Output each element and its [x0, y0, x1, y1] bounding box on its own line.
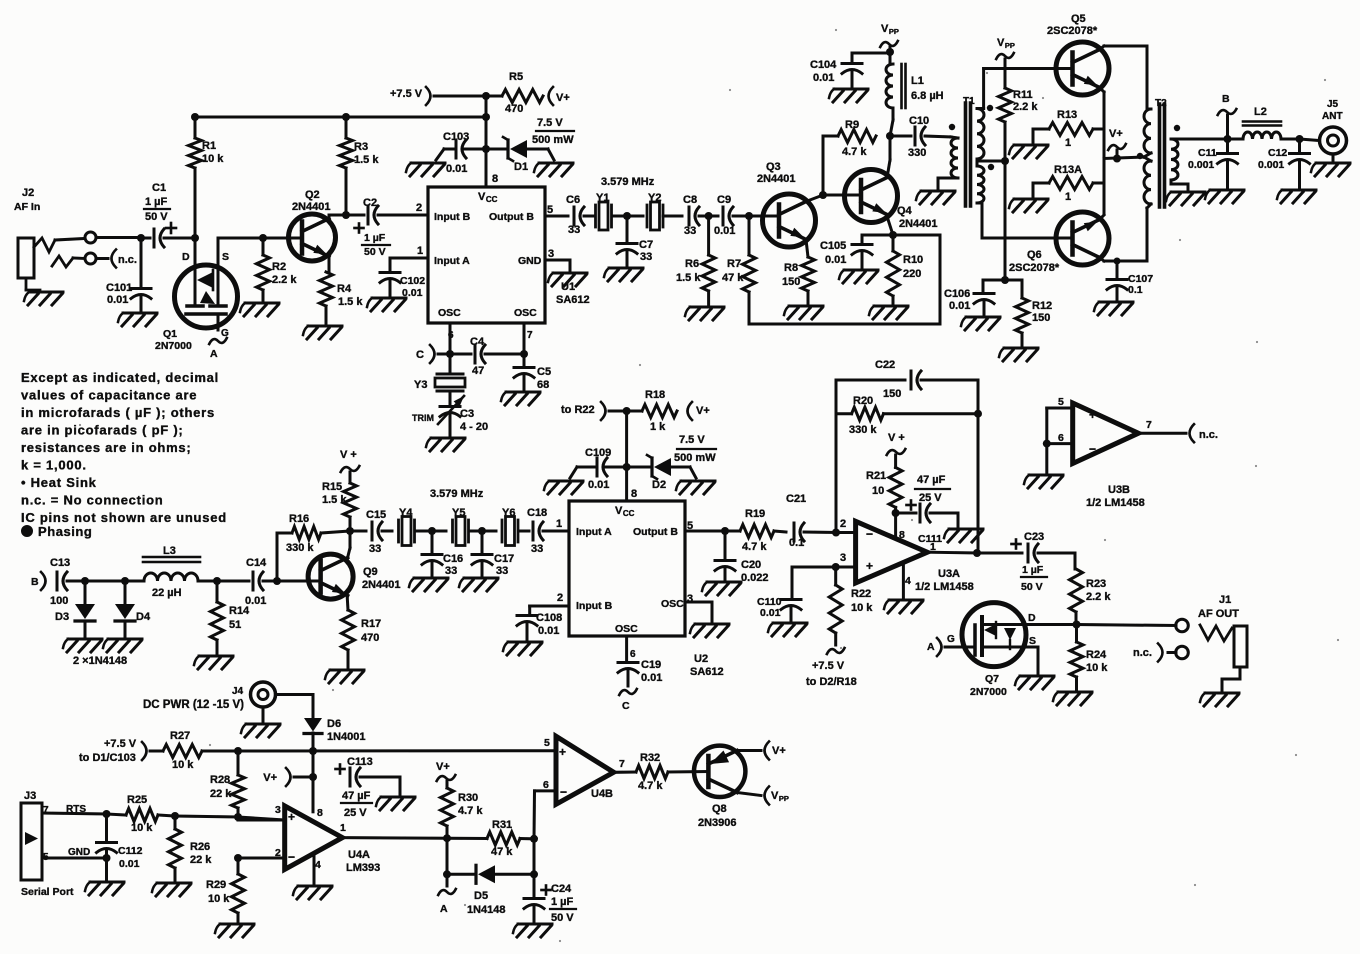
svg-text:4.7 k: 4.7 k — [742, 541, 767, 553]
svg-text:1N4148: 1N4148 — [467, 904, 506, 916]
svg-text:+: + — [1089, 408, 1096, 422]
svg-text:3: 3 — [275, 804, 281, 816]
svg-text:Output B: Output B — [633, 526, 678, 538]
svg-text:V: V — [478, 191, 486, 203]
svg-text:+: + — [866, 559, 873, 573]
svg-text:C11: C11 — [1198, 147, 1217, 159]
svg-text:22 µH: 22 µH — [152, 587, 182, 599]
svg-text:PP: PP — [889, 27, 899, 36]
svg-text:C104: C104 — [810, 59, 837, 71]
svg-text:2: 2 — [275, 847, 281, 859]
svg-text:Y3: Y3 — [414, 379, 427, 391]
svg-text:C109: C109 — [585, 447, 611, 459]
svg-text:resistances are in ohms;: resistances are in ohms; — [21, 440, 191, 455]
svg-text:Except as indicated, decimal: Except as indicated, decimal — [21, 370, 219, 385]
svg-text:C23: C23 — [1024, 531, 1044, 543]
svg-text:R8: R8 — [784, 262, 798, 274]
svg-text:0.01: 0.01 — [245, 595, 266, 607]
svg-text:+7.5 V: +7.5 V — [390, 88, 423, 100]
svg-text:to D1/C103: to D1/C103 — [79, 752, 136, 764]
svg-text:R1: R1 — [202, 140, 216, 152]
svg-text:D6: D6 — [327, 718, 341, 730]
svg-text:L2: L2 — [1254, 106, 1267, 118]
svg-text:0.1: 0.1 — [1128, 284, 1143, 296]
svg-text:6: 6 — [630, 649, 636, 660]
svg-text:0.001: 0.001 — [1258, 159, 1284, 171]
svg-text:V: V — [771, 790, 779, 802]
svg-text:2N3906: 2N3906 — [698, 817, 737, 829]
svg-text:2.2 k: 2.2 k — [272, 274, 297, 286]
svg-text:100: 100 — [50, 595, 68, 607]
svg-text:Input A: Input A — [576, 526, 612, 538]
svg-text:1 k: 1 k — [650, 421, 666, 433]
svg-text:C: C — [416, 349, 424, 361]
svg-text:J3: J3 — [24, 790, 36, 802]
svg-text:2N7000: 2N7000 — [155, 340, 192, 352]
svg-text:D5: D5 — [474, 890, 488, 902]
svg-text:2SC2078*: 2SC2078* — [1009, 262, 1060, 274]
svg-text:10 k: 10 k — [851, 602, 873, 614]
svg-text:2: 2 — [840, 518, 846, 530]
svg-text:Q7: Q7 — [985, 673, 999, 685]
svg-text:C106: C106 — [944, 288, 970, 300]
svg-text:8: 8 — [899, 529, 905, 541]
svg-text:1: 1 — [1065, 137, 1071, 149]
svg-text:C111: C111 — [918, 533, 942, 545]
svg-text:IC pins not shown are unused: IC pins not shown are unused — [21, 510, 227, 525]
svg-text:470: 470 — [361, 632, 379, 644]
svg-text:k = 1,000.: k = 1,000. — [21, 458, 87, 473]
svg-text:2SC2078*: 2SC2078* — [1047, 25, 1098, 37]
svg-text:−: − — [1089, 442, 1096, 456]
svg-text:470: 470 — [505, 103, 523, 115]
svg-text:10: 10 — [872, 485, 884, 497]
svg-text:C15: C15 — [366, 509, 386, 521]
svg-text:R15: R15 — [322, 481, 342, 493]
svg-text:C19: C19 — [641, 659, 661, 671]
svg-text:L1: L1 — [911, 75, 924, 87]
svg-text:OSC: OSC — [438, 307, 461, 319]
svg-text:1.5 k: 1.5 k — [354, 154, 379, 166]
svg-text:1: 1 — [556, 518, 562, 530]
svg-text:Q3: Q3 — [766, 161, 781, 173]
svg-text:Phasing: Phasing — [38, 524, 92, 539]
svg-text:n.c.: n.c. — [1133, 647, 1152, 659]
svg-text:1.5 k: 1.5 k — [338, 296, 363, 308]
svg-text:25 V: 25 V — [919, 492, 942, 504]
svg-text:S: S — [222, 251, 229, 263]
svg-text:ANT: ANT — [1322, 111, 1343, 122]
svg-text:10 k: 10 k — [202, 153, 224, 165]
svg-text:330 k: 330 k — [849, 424, 877, 436]
svg-text:J4: J4 — [232, 686, 244, 697]
svg-text:R18: R18 — [645, 389, 665, 401]
svg-text:0.01: 0.01 — [714, 225, 735, 237]
svg-text:Q6: Q6 — [1027, 249, 1042, 261]
svg-text:J2: J2 — [22, 187, 34, 199]
svg-text:D2: D2 — [652, 479, 666, 491]
svg-text:0.01: 0.01 — [949, 300, 970, 312]
svg-text:R13: R13 — [1057, 109, 1077, 121]
svg-text:AF OUT: AF OUT — [1198, 608, 1239, 620]
svg-text:150: 150 — [782, 276, 800, 288]
svg-text:R27: R27 — [170, 730, 190, 742]
svg-text:10 k: 10 k — [1086, 662, 1108, 674]
svg-text:GND: GND — [518, 255, 542, 267]
svg-text:0.01: 0.01 — [825, 254, 846, 266]
svg-text:7.5 V: 7.5 V — [537, 117, 563, 129]
svg-text:OSC: OSC — [514, 307, 537, 319]
svg-text:U2: U2 — [694, 653, 708, 665]
svg-text:n.c. = No connection: n.c. = No connection — [21, 493, 164, 508]
svg-text:Y6: Y6 — [502, 507, 515, 519]
svg-text:n.c.: n.c. — [118, 254, 137, 266]
svg-text:SA612: SA612 — [556, 294, 590, 306]
svg-text:47 µF: 47 µF — [917, 474, 946, 486]
svg-text:C24: C24 — [551, 883, 572, 895]
svg-text:47 µF: 47 µF — [342, 790, 371, 802]
svg-text:R30: R30 — [458, 792, 478, 804]
svg-text:V+: V+ — [772, 745, 786, 757]
svg-text:Input A: Input A — [434, 255, 470, 267]
svg-text:C108: C108 — [536, 612, 562, 624]
svg-text:D: D — [1028, 612, 1036, 624]
svg-text:V +: V + — [340, 449, 357, 461]
svg-text:C12: C12 — [1268, 147, 1287, 159]
svg-text:C18: C18 — [527, 507, 547, 519]
svg-text:Q9: Q9 — [363, 566, 378, 578]
svg-text:2N4401: 2N4401 — [292, 201, 331, 213]
svg-text:1/2 LM1458: 1/2 LM1458 — [915, 581, 974, 593]
svg-text:R3: R3 — [354, 141, 368, 153]
svg-text:0.1: 0.1 — [789, 537, 804, 549]
svg-text:+: + — [288, 810, 295, 824]
svg-text:330 k: 330 k — [286, 542, 314, 554]
svg-text:33: 33 — [568, 224, 580, 236]
svg-text:2N4401: 2N4401 — [362, 579, 401, 591]
svg-text:0.01: 0.01 — [760, 607, 781, 619]
svg-text:1N4001: 1N4001 — [327, 731, 366, 743]
svg-text:+7.5 V: +7.5 V — [812, 660, 845, 672]
svg-text:R26: R26 — [190, 841, 210, 853]
svg-text:C2: C2 — [363, 197, 377, 209]
svg-text:33: 33 — [684, 225, 696, 237]
svg-text:33: 33 — [640, 251, 652, 263]
svg-text:47: 47 — [472, 365, 484, 377]
svg-text:R32: R32 — [640, 752, 660, 764]
svg-text:• Heat Sink: • Heat Sink — [21, 475, 97, 490]
svg-text:0.01: 0.01 — [119, 858, 140, 870]
svg-text:6.8 µH: 6.8 µH — [911, 90, 944, 102]
svg-text:V +: V + — [888, 432, 905, 444]
svg-text:33: 33 — [496, 565, 508, 577]
svg-text:R5: R5 — [509, 71, 523, 83]
svg-text:3: 3 — [548, 248, 554, 260]
svg-text:R23: R23 — [1086, 578, 1106, 590]
svg-text:0.001: 0.001 — [1188, 159, 1214, 171]
svg-text:Y1: Y1 — [596, 192, 609, 204]
svg-text:2N4401: 2N4401 — [757, 173, 796, 185]
svg-text:33: 33 — [445, 565, 457, 577]
svg-text:R19: R19 — [745, 508, 765, 520]
svg-text:2N7000: 2N7000 — [970, 686, 1007, 698]
svg-text:R17: R17 — [361, 618, 381, 630]
svg-text:in microfarads ( µF ); others: in microfarads ( µF ); others — [21, 405, 215, 420]
svg-text:C103: C103 — [443, 131, 469, 143]
svg-text:C16: C16 — [443, 553, 463, 565]
svg-text:3: 3 — [840, 552, 846, 564]
svg-text:R29: R29 — [206, 879, 226, 891]
svg-text:2: 2 — [416, 202, 422, 214]
svg-text:V: V — [997, 37, 1005, 49]
svg-text:1.5 k: 1.5 k — [322, 494, 347, 506]
svg-text:50 V: 50 V — [145, 211, 168, 223]
svg-text:10 k: 10 k — [172, 759, 194, 771]
svg-text:DC PWR (12 -15 V): DC PWR (12 -15 V) — [143, 699, 244, 711]
svg-text:51: 51 — [229, 619, 241, 631]
svg-text:CC: CC — [486, 195, 498, 204]
svg-text:7: 7 — [527, 330, 533, 341]
svg-text:6: 6 — [543, 779, 549, 791]
svg-text:D1: D1 — [514, 161, 528, 173]
svg-text:R12: R12 — [1032, 300, 1052, 312]
svg-text:0.01: 0.01 — [641, 672, 662, 684]
svg-text:R20: R20 — [853, 395, 873, 407]
svg-text:OSC: OSC — [661, 598, 684, 610]
svg-text:R4: R4 — [337, 283, 352, 295]
svg-text:L3: L3 — [163, 545, 176, 557]
svg-text:J5: J5 — [1327, 99, 1339, 110]
svg-text:1: 1 — [340, 822, 346, 834]
svg-text:n.c.: n.c. — [1199, 429, 1218, 441]
svg-text:0.01: 0.01 — [107, 294, 128, 306]
svg-text:G: G — [947, 634, 955, 645]
svg-text:7: 7 — [619, 758, 625, 770]
svg-text:C4: C4 — [470, 336, 485, 348]
svg-text:C: C — [622, 700, 630, 712]
svg-text:R10: R10 — [903, 254, 923, 266]
svg-text:C1: C1 — [152, 182, 166, 194]
svg-text:C20: C20 — [741, 559, 761, 571]
svg-text:Y4: Y4 — [399, 507, 413, 519]
svg-text:C17: C17 — [494, 553, 514, 565]
svg-text:4.7 k: 4.7 k — [842, 146, 867, 158]
svg-text:0.01: 0.01 — [588, 479, 609, 491]
svg-text:150: 150 — [883, 388, 901, 400]
svg-text:R28: R28 — [210, 774, 230, 786]
svg-text:Input B: Input B — [576, 600, 613, 612]
svg-text:V+: V+ — [556, 92, 570, 104]
svg-text:A: A — [927, 641, 935, 653]
svg-text:D4: D4 — [136, 611, 151, 623]
svg-text:2N4401: 2N4401 — [899, 218, 938, 230]
svg-text:Serial Port: Serial Port — [21, 886, 74, 898]
svg-text:U4B: U4B — [591, 788, 613, 800]
svg-text:C6: C6 — [566, 194, 580, 206]
svg-text:2: 2 — [557, 592, 563, 604]
svg-text:50 V: 50 V — [1021, 581, 1043, 593]
svg-text:1 µF: 1 µF — [1022, 564, 1044, 576]
svg-text:220: 220 — [903, 268, 921, 280]
svg-text:V+: V+ — [1109, 128, 1123, 140]
svg-text:V: V — [615, 505, 623, 517]
svg-text:C7: C7 — [639, 239, 653, 251]
svg-text:330: 330 — [908, 147, 926, 159]
svg-text:Q2: Q2 — [305, 189, 320, 201]
svg-text:OSC: OSC — [615, 623, 638, 635]
svg-text:A: A — [210, 348, 218, 360]
svg-text:C8: C8 — [683, 194, 697, 206]
svg-text:PP: PP — [779, 794, 789, 803]
svg-text:1 µF: 1 µF — [145, 196, 168, 208]
svg-text:B: B — [1222, 93, 1230, 105]
svg-text:4 - 20: 4 - 20 — [460, 421, 488, 433]
svg-text:Output B: Output B — [489, 211, 534, 223]
svg-text:33: 33 — [531, 543, 543, 555]
svg-text:6: 6 — [448, 330, 454, 341]
svg-text:AF In: AF In — [14, 201, 40, 213]
svg-text:U3B: U3B — [1108, 484, 1130, 496]
svg-text:3.579 MHz: 3.579 MHz — [430, 488, 484, 500]
svg-text:D3: D3 — [55, 611, 69, 623]
svg-text:C102: C102 — [400, 275, 425, 287]
svg-text:10 k: 10 k — [131, 822, 153, 834]
svg-text:Q1: Q1 — [163, 328, 177, 340]
svg-text:0.022: 0.022 — [741, 572, 769, 584]
svg-text:C22: C22 — [875, 359, 895, 371]
svg-text:LM393: LM393 — [346, 862, 380, 874]
svg-text:R13A: R13A — [1054, 164, 1082, 176]
svg-text:R21: R21 — [866, 470, 886, 482]
svg-text:1: 1 — [1065, 191, 1071, 203]
svg-text:150: 150 — [1032, 312, 1050, 324]
svg-text:to R22: to R22 — [561, 404, 595, 416]
svg-text:5: 5 — [1058, 396, 1064, 408]
svg-text:V+: V+ — [696, 405, 710, 417]
svg-text:R24: R24 — [1086, 649, 1107, 661]
svg-text:0.01: 0.01 — [538, 625, 559, 637]
svg-text:are in picofarads ( pF );: are in picofarads ( pF ); — [21, 423, 184, 438]
svg-text:5: 5 — [547, 204, 553, 216]
svg-text:to D2/R18: to D2/R18 — [806, 676, 857, 688]
svg-text:47 k: 47 k — [491, 846, 513, 858]
svg-text:1/2 LM1458: 1/2 LM1458 — [1086, 497, 1145, 509]
svg-text:C5: C5 — [537, 366, 551, 378]
svg-text:8: 8 — [631, 488, 637, 500]
svg-text:4: 4 — [905, 575, 911, 587]
svg-text:68: 68 — [537, 379, 549, 391]
svg-text:4.7 k: 4.7 k — [458, 805, 483, 817]
svg-text:C101: C101 — [106, 282, 132, 294]
svg-text:−: − — [866, 527, 873, 541]
svg-text:SA612: SA612 — [690, 666, 724, 678]
svg-text:PP: PP — [1005, 41, 1015, 50]
svg-text:+: + — [559, 745, 566, 759]
svg-text:A: A — [440, 903, 448, 915]
svg-text:1 µF: 1 µF — [364, 232, 386, 244]
svg-text:2.2 k: 2.2 k — [1086, 591, 1111, 603]
svg-text:4.7 k: 4.7 k — [638, 780, 663, 792]
svg-text:S: S — [1029, 635, 1036, 647]
svg-text:2 ×1N4148: 2 ×1N4148 — [73, 655, 127, 667]
svg-text:1.5 k: 1.5 k — [676, 272, 701, 284]
svg-text:25 V: 25 V — [344, 807, 367, 819]
svg-text:B: B — [31, 576, 39, 588]
svg-text:500 mW: 500 mW — [674, 452, 716, 464]
svg-text:R7: R7 — [727, 258, 741, 270]
svg-text:Input B: Input B — [434, 211, 471, 223]
svg-text:R31: R31 — [492, 819, 512, 831]
svg-text:2.2 k: 2.2 k — [1013, 101, 1038, 113]
svg-text:4: 4 — [315, 859, 321, 871]
svg-text:C13: C13 — [50, 557, 70, 569]
svg-text:10 k: 10 k — [208, 893, 230, 905]
svg-text:R9: R9 — [845, 119, 859, 131]
svg-text:D: D — [182, 251, 190, 263]
svg-text:7: 7 — [1146, 419, 1152, 431]
svg-text:5: 5 — [544, 737, 550, 749]
svg-text:Q5: Q5 — [1071, 13, 1086, 25]
svg-text:0.01: 0.01 — [446, 163, 467, 175]
svg-text:0.01: 0.01 — [813, 72, 834, 84]
svg-text:−: − — [288, 850, 295, 864]
svg-text:TRIM: TRIM — [412, 413, 434, 423]
svg-text:Q4: Q4 — [897, 205, 913, 217]
svg-text:C112: C112 — [118, 845, 143, 857]
svg-text:3.579 MHz: 3.579 MHz — [601, 176, 655, 188]
svg-text:C10: C10 — [909, 115, 929, 127]
svg-text:0.01: 0.01 — [402, 287, 423, 299]
svg-text:8: 8 — [492, 173, 498, 185]
svg-text:V: V — [881, 23, 889, 35]
svg-text:C14: C14 — [246, 557, 267, 569]
svg-text:47 k: 47 k — [722, 272, 744, 284]
svg-text:22 k: 22 k — [190, 854, 212, 866]
svg-text:Y5: Y5 — [452, 507, 465, 519]
svg-text:C9: C9 — [717, 194, 731, 206]
svg-text:C105: C105 — [820, 240, 846, 252]
svg-text:R16: R16 — [289, 513, 309, 525]
svg-text:22 k: 22 k — [210, 788, 232, 800]
svg-text:R6: R6 — [685, 258, 699, 270]
svg-text:500 mW: 500 mW — [532, 134, 574, 146]
svg-text:V+: V+ — [436, 761, 450, 773]
svg-text:R11: R11 — [1013, 89, 1033, 101]
svg-text:50 V: 50 V — [364, 246, 386, 258]
svg-text:7.5 V: 7.5 V — [679, 434, 705, 446]
svg-text:C3: C3 — [460, 408, 474, 420]
svg-text:U3A: U3A — [938, 568, 960, 580]
svg-text:+7.5 V: +7.5 V — [104, 738, 137, 750]
svg-text:8: 8 — [317, 807, 323, 819]
svg-text:R2: R2 — [272, 261, 286, 273]
svg-text:33: 33 — [369, 543, 381, 555]
svg-text:CC: CC — [623, 509, 635, 518]
svg-text:1: 1 — [417, 245, 423, 257]
svg-text:R22: R22 — [851, 588, 871, 600]
svg-text:−: − — [560, 785, 567, 799]
svg-text:1 µF: 1 µF — [551, 896, 574, 908]
svg-text:Y2: Y2 — [648, 192, 661, 204]
svg-text:U4A: U4A — [348, 849, 370, 861]
svg-text:values of capacitance are: values of capacitance are — [21, 388, 197, 403]
svg-text:R25: R25 — [127, 794, 147, 806]
svg-text:50 V: 50 V — [551, 912, 574, 924]
svg-text:GND: GND — [68, 847, 90, 858]
svg-text:V+: V+ — [263, 772, 277, 784]
svg-text:Q8: Q8 — [712, 803, 727, 815]
svg-text:C21: C21 — [786, 493, 806, 505]
